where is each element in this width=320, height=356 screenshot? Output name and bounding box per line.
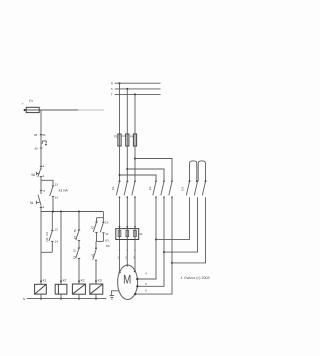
wire: thermal relay to motor U xyxy=(117,240,120,274)
svg-text:96: 96 xyxy=(35,146,39,150)
svg-text:FL: FL xyxy=(43,133,47,137)
neutral wire N xyxy=(23,297,106,301)
bus S xyxy=(111,87,161,91)
svg-text:K3: K3 xyxy=(98,279,102,283)
svg-text:61: 61 xyxy=(91,253,95,257)
wire: K2 pole1 to motor terminal 4 xyxy=(136,197,157,280)
svg-text:95: 95 xyxy=(34,133,38,137)
contactor K3 main contacts xyxy=(181,180,207,195)
svg-text:14: 14 xyxy=(55,195,59,199)
svg-text:F2: F2 xyxy=(114,135,118,139)
thermal relay FL xyxy=(116,229,144,252)
svg-text:61: 61 xyxy=(72,249,76,253)
svg-text:55: 55 xyxy=(73,229,77,233)
svg-text:K3: K3 xyxy=(105,239,109,243)
svg-text:K2: K2 xyxy=(148,186,152,190)
wire: F1 input/output horizontal xyxy=(25,109,78,111)
wire: K3 pole3 to delta link 3 xyxy=(172,197,206,263)
svg-text:NA: NA xyxy=(45,237,49,241)
svg-text:T: T xyxy=(111,93,113,97)
ground (motor earth) xyxy=(110,291,119,299)
coil KT (timer) xyxy=(55,211,67,300)
wire: control bus xyxy=(41,211,103,213)
svg-text:FL: FL xyxy=(140,232,144,236)
bus T xyxy=(111,93,161,97)
contactor K1 main contacts xyxy=(111,181,136,198)
svg-text:J. Galvez (c) 2003: J. Galvez (c) 2003 xyxy=(180,276,209,280)
contact K1 13-14 (seal-in NO) xyxy=(50,182,69,212)
wire: K2 pole3 to motor terminal 6 xyxy=(134,197,173,295)
svg-text:S1: S1 xyxy=(30,201,34,205)
contact K2 13-14 xyxy=(45,212,58,253)
wire: phase L3 down xyxy=(134,94,136,134)
svg-text:13: 13 xyxy=(55,182,59,186)
wire: L2 fuse to K1 contact xyxy=(126,146,128,182)
contactor K2 main contacts xyxy=(148,181,173,198)
node: terminal 1 xyxy=(40,164,45,168)
svg-text:14: 14 xyxy=(55,239,59,243)
svg-text:S: S xyxy=(111,87,113,91)
svg-text:K1 NA: K1 NA xyxy=(59,189,69,193)
wire: K3 pole2 to delta link 2 xyxy=(164,197,198,252)
svg-text:NA: NA xyxy=(106,244,110,248)
svg-text:K2: K2 xyxy=(81,279,85,283)
svg-text:K3: K3 xyxy=(72,255,76,259)
svg-text:KT: KT xyxy=(90,225,94,229)
fuse F4 xyxy=(130,134,137,146)
wire: K2 pole2 to motor terminal 5 xyxy=(136,197,165,287)
coil K1 xyxy=(35,252,47,299)
node: terminal 3 xyxy=(40,189,45,193)
wire: phase L2 down xyxy=(126,89,128,134)
svg-text:13: 13 xyxy=(105,220,109,224)
bus R xyxy=(111,81,161,85)
svg-text:13: 13 xyxy=(54,228,58,232)
wire: L1 fuse to K1 contact xyxy=(119,146,121,182)
branch: K3 coil feed, parallel KT 67-68 / K3 13-14 contacts xyxy=(90,212,110,249)
wire: control vertical from F1 down to contact FL xyxy=(40,110,42,135)
svg-text:14: 14 xyxy=(105,232,109,236)
pushbutton S0 (NC stop) xyxy=(31,168,44,178)
fuse F1 xyxy=(26,99,39,113)
thermal contact FL 95-96 xyxy=(34,133,47,150)
svg-text:F3: F3 xyxy=(122,134,126,138)
svg-text:R: R xyxy=(111,81,113,85)
wire: tap L2 to K2 pole 2 xyxy=(127,169,164,181)
wire: tap L3 to K2 pole 3 xyxy=(135,159,172,182)
wire: join to K1 coil xyxy=(41,251,52,253)
svg-text:F4: F4 xyxy=(130,135,134,139)
svg-text:KT: KT xyxy=(63,279,67,283)
svg-text:K1: K1 xyxy=(43,279,47,283)
svg-text:K3: K3 xyxy=(181,187,185,191)
wire: phase L1 down xyxy=(119,83,121,134)
svg-text:K2: K2 xyxy=(45,232,49,236)
branch: K2 coil with KT 55-56 and K3 61-62 contacts xyxy=(72,211,80,285)
wire: K3 pole1 to delta link 1 xyxy=(156,197,190,239)
wire: thermal relay to motor W xyxy=(133,240,136,273)
wire: K1 contacts to thermal relay xyxy=(119,197,137,228)
svg-text:KT: KT xyxy=(73,235,77,239)
pushbutton S1 (NO start) xyxy=(30,195,45,209)
wire: FL to S0 xyxy=(40,135,42,170)
wire: branch to contact K1 xyxy=(41,180,53,186)
loop: delta jumper U1 xyxy=(190,161,197,181)
coil K2 xyxy=(72,279,85,300)
svg-text:N: N xyxy=(23,297,25,301)
svg-text:K1: K1 xyxy=(111,186,115,190)
wire: L3 fuse to K1 contact xyxy=(134,146,136,182)
svg-text:F1: F1 xyxy=(29,99,33,103)
node: control supply dot xyxy=(22,103,26,111)
fuse F3 xyxy=(122,134,129,146)
loop: delta jumper U2 xyxy=(198,161,205,181)
coil K3 xyxy=(90,279,103,300)
wire: tap L1 to K2 pole 1 xyxy=(120,175,157,181)
svg-text:S0: S0 xyxy=(31,173,35,177)
svg-text:M: M xyxy=(123,273,131,287)
wire: S0 to S1 xyxy=(40,177,42,194)
motor M xyxy=(118,265,138,299)
wire: S1 to bus and down to K1 coil branch xyxy=(40,206,42,253)
fuse F2 xyxy=(114,134,121,146)
contact K2 61-62 (interlock) xyxy=(91,241,98,284)
wire: thermal relay to motor V xyxy=(125,240,128,267)
